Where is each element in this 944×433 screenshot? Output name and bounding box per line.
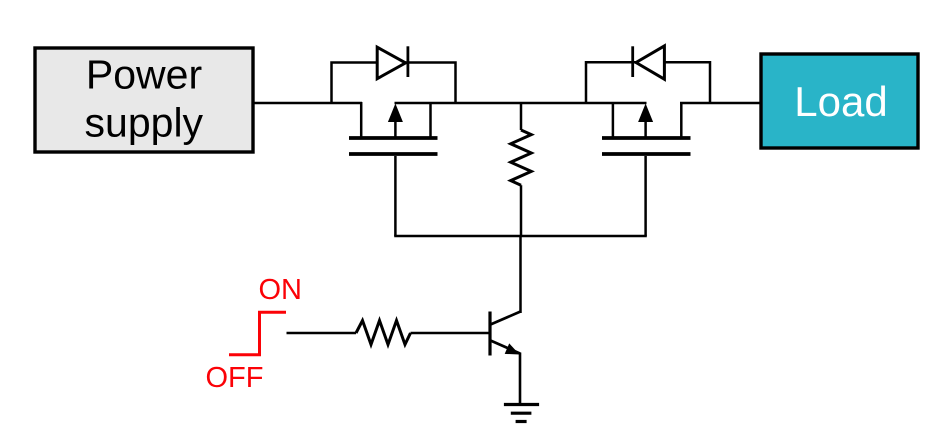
Q3 collector diagonal xyxy=(491,312,521,325)
wire: base resistor to Q3 base xyxy=(411,332,489,335)
Q3 base bar xyxy=(488,312,491,356)
wire: control input to base resistor xyxy=(287,332,357,335)
Q2 left (drain) stub xyxy=(612,102,615,138)
transistor Q1 (left MOSFET) xyxy=(349,102,438,154)
node ON label xyxy=(259,274,303,306)
Q1 channel bar xyxy=(349,136,438,140)
ground xyxy=(504,405,539,422)
wire: power supply output to Q1 source stub xyxy=(253,102,362,105)
wire: Q1 drain rail to center node and Q2 xyxy=(395,102,647,105)
power supply box xyxy=(35,48,253,152)
Q1 left (source) stub xyxy=(360,102,363,138)
svg-text:Load: Load xyxy=(794,78,887,125)
transistor Q2 (right MOSFET) xyxy=(602,102,691,154)
Q1 gate plate xyxy=(349,152,438,156)
resistor R1 (gate pull-down, vertical) xyxy=(511,102,532,236)
load box xyxy=(761,54,918,148)
Q2 channel bar xyxy=(602,136,691,140)
Q3 emitter diagonal xyxy=(491,341,521,354)
Q2 gate plate xyxy=(602,152,691,156)
wire: gate bus (Q1 gate to Q2 gate) xyxy=(394,156,647,236)
svg-text:supply: supply xyxy=(85,99,204,145)
resistor R2 (base resistor, horizontal) xyxy=(356,321,411,345)
Q1 right (drain) stub xyxy=(429,102,432,138)
diode D1 (body diode of Q1, anode left) xyxy=(377,46,408,78)
transistor Q3 (NPN) xyxy=(490,312,521,356)
Q3 emitter arrowhead xyxy=(505,343,520,354)
svg-text:OFF: OFF xyxy=(206,362,264,394)
wire: Q1 body-diode bypass loop xyxy=(332,63,456,104)
diode D2 (body diode of Q2, anode right) xyxy=(633,46,665,79)
wire: Q2 body-diode bypass loop xyxy=(586,62,710,103)
wire: Q3 emitter to ground xyxy=(519,353,522,405)
node OFF label xyxy=(206,362,264,394)
Q2 body arrow xyxy=(644,118,647,138)
svg-text:ON: ON xyxy=(259,274,303,306)
wire: Q2 source stub to load xyxy=(680,102,761,105)
svg-text:Power: Power xyxy=(86,51,202,97)
ON/OFF step waveform xyxy=(229,312,286,355)
Q1 body arrow xyxy=(394,118,397,138)
Q2 right (source) stub xyxy=(680,102,683,138)
wire: center node down to Q3 collector xyxy=(519,236,522,313)
